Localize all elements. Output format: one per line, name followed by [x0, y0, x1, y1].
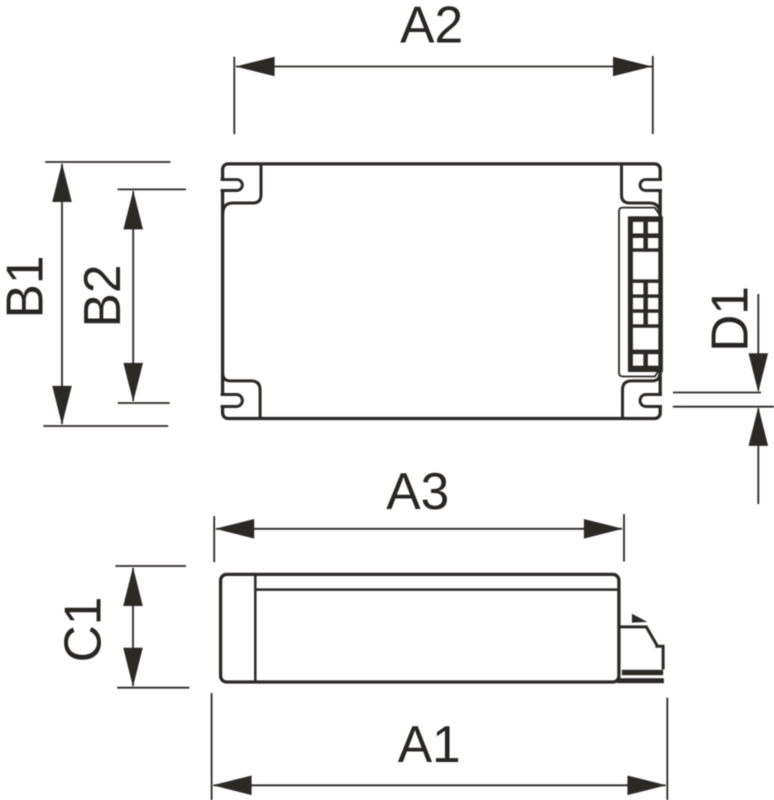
C1 extension line top — [115, 565, 186, 567]
terminal bracket outline — [619, 208, 660, 377]
B1 arrow top — [52, 163, 72, 202]
D1 dimension line upper — [757, 294, 759, 391]
B2 arrow top — [123, 190, 143, 229]
corner hook top-left — [223, 163, 261, 214]
A3 arrow left — [215, 519, 254, 539]
B2 arrow bottom — [123, 363, 143, 402]
A2 dimension line — [236, 66, 652, 68]
D1 arrow bottom — [749, 407, 769, 446]
A3 extension line left — [213, 516, 215, 562]
D1 extension line top — [673, 392, 761, 394]
svg-text:A2: A2 — [400, 0, 463, 54]
D1 dimension line lower — [757, 409, 759, 505]
B1 extension line top — [45, 161, 170, 163]
mounting slot top-right — [640, 180, 662, 191]
C1 extension line bottom — [117, 687, 189, 689]
A3 extension line right — [623, 514, 625, 562]
C1 arrow top — [123, 567, 143, 606]
mounting slot bottom-left — [221, 395, 243, 407]
B2 dimension line — [132, 191, 134, 401]
side view bottom edge extension — [617, 678, 664, 683]
A1 extension line right — [666, 698, 668, 800]
top view body outline — [223, 164, 661, 419]
A1 dimension line — [214, 784, 666, 786]
svg-text:A1: A1 — [398, 715, 461, 773]
B2 extension line bottom — [118, 402, 170, 404]
corner hook top-right — [622, 163, 660, 214]
side view end cap line — [254, 575, 257, 681]
mounting slot bottom-right — [640, 395, 662, 407]
B2 extension line top — [118, 188, 186, 190]
svg-text:D1: D1 — [700, 286, 758, 352]
A2 extension line right — [652, 56, 654, 134]
A1 arrow right — [627, 776, 666, 796]
B1 arrow bottom — [52, 386, 72, 425]
corner hook bottom-left — [223, 374, 260, 420]
D1 arrow top — [749, 353, 769, 392]
C1 arrow bottom — [123, 648, 143, 687]
svg-text:A3: A3 — [386, 462, 449, 520]
B1 extension line bottom — [43, 425, 168, 427]
A2 arrow left — [236, 57, 275, 77]
A1 arrow left — [213, 776, 252, 796]
slot edge gap erasers — [219, 180, 664, 406]
side view connector foot bar — [622, 670, 663, 675]
B1 dimension line — [61, 164, 63, 424]
terminal block cells — [633, 222, 658, 366]
D1 extension line bottom — [673, 406, 774, 408]
A1 extension line left — [211, 693, 213, 800]
A3 arrow right — [584, 519, 623, 539]
mounting slot top-left — [221, 180, 243, 191]
svg-text:B1: B1 — [0, 256, 53, 319]
A2 extension line left — [233, 57, 235, 135]
svg-text:C1: C1 — [54, 597, 112, 663]
side view lid seam — [255, 588, 618, 591]
corner hook bottom-right — [623, 374, 660, 420]
A3 dimension line — [216, 528, 622, 530]
A2 arrow right — [613, 57, 652, 77]
C1 dimension line — [132, 568, 134, 686]
side view connector foot outline — [621, 627, 664, 670]
terminal block body — [628, 216, 663, 372]
side view body outline — [221, 574, 619, 682]
side view wedge flag — [632, 614, 647, 623]
svg-text:B2: B2 — [73, 265, 131, 328]
